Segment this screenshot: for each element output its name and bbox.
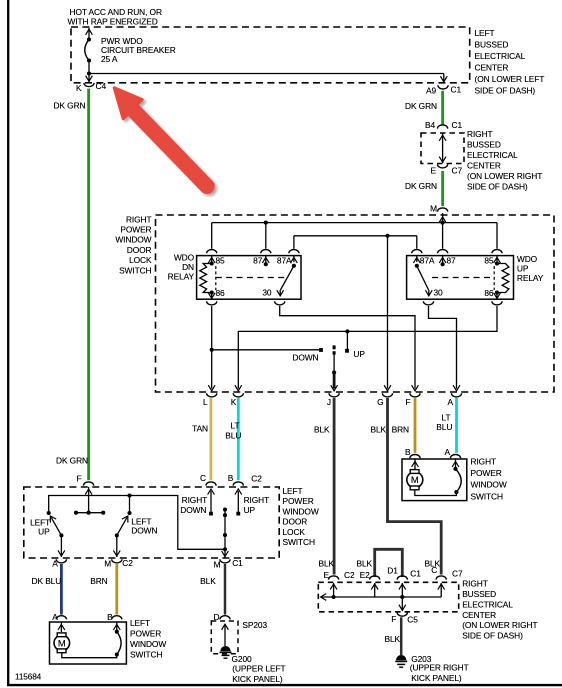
svg-text:J: J [327,397,331,407]
svg-text:BRN: BRN [90,576,107,586]
svg-text:87: 87 [447,255,457,265]
svg-text:DN: DN [182,262,194,272]
svg-text:M: M [58,638,66,649]
svg-text:(ON LOWER RIGHT: (ON LOWER RIGHT [467,171,542,181]
svg-text:F: F [391,614,396,624]
svg-text:SWITCH: SWITCH [130,650,162,660]
svg-text:UP: UP [244,505,256,515]
svg-text:DOWN: DOWN [131,525,157,535]
svg-text:ELECTRICAL: ELECTRICAL [462,599,513,609]
svg-text:K: K [231,397,237,407]
svg-text:E2: E2 [360,570,370,580]
svg-text:DOOR: DOOR [283,517,308,527]
svg-text:BUSSED: BUSSED [467,140,501,150]
svg-text:TAN: TAN [192,423,208,433]
svg-text:POWER: POWER [471,468,502,478]
svg-text:C2: C2 [251,474,262,484]
svg-text:WDO: WDO [174,252,195,262]
svg-text:RIGHT: RIGHT [182,495,208,505]
svg-text:C2: C2 [344,570,355,580]
svg-text:115684: 115684 [15,673,42,682]
svg-text:BLU: BLU [225,430,241,440]
svg-text:WINDOW: WINDOW [130,639,166,649]
svg-text:C1: C1 [232,558,243,568]
svg-text:BRN: BRN [392,425,409,435]
svg-text:87: 87 [253,255,263,265]
svg-text:C7: C7 [452,166,463,176]
svg-text:ELECTRICAL: ELECTRICAL [467,150,518,160]
svg-text:G: G [377,397,383,407]
svg-text:DK GRN: DK GRN [405,101,437,111]
svg-text:D1: D1 [387,565,398,575]
svg-text:DK GRN: DK GRN [56,455,88,465]
svg-text:DOWN: DOWN [180,505,206,515]
svg-text:A: A [52,612,58,622]
svg-text:C4: C4 [96,81,107,91]
svg-text:BLK: BLK [356,559,372,569]
svg-text:DOOR: DOOR [127,245,152,255]
svg-text:SWITCH: SWITCH [119,265,151,275]
svg-text:E: E [324,570,330,580]
svg-text:85: 85 [484,255,494,265]
svg-text:ELECTRICAL: ELECTRICAL [475,51,526,61]
svg-text:A: A [52,558,58,568]
svg-text:LT: LT [231,420,240,430]
svg-text:86: 86 [216,288,226,298]
svg-text:SIDE OF DASH): SIDE OF DASH) [475,86,536,96]
svg-text:RIGHT: RIGHT [467,129,493,139]
svg-text:B: B [228,473,234,483]
svg-text:DK GRN: DK GRN [405,181,437,191]
svg-text:SIDE OF DASH): SIDE OF DASH) [462,631,523,641]
svg-text:POWER: POWER [130,629,161,639]
svg-text:WDO: WDO [517,254,538,264]
svg-text:UP: UP [38,527,50,537]
svg-text:BLK: BLK [370,425,386,435]
svg-text:DOWN: DOWN [292,352,318,362]
svg-text:KICK PANEL): KICK PANEL) [232,674,283,684]
svg-text:LOCK: LOCK [129,255,152,265]
svg-text:A: A [448,397,454,407]
svg-text:M: M [104,559,111,569]
svg-text:A9: A9 [426,86,436,96]
svg-text:KICK PANEL): KICK PANEL) [411,673,462,683]
svg-text:C: C [431,565,437,575]
svg-text:RELAY: RELAY [168,272,195,282]
svg-text:B: B [107,612,113,622]
svg-text:SWITCH: SWITCH [283,537,315,547]
svg-text:85: 85 [216,255,226,265]
svg-text:C5: C5 [407,614,418,624]
svg-text:CENTER: CENTER [467,161,501,171]
svg-text:CENTER: CENTER [475,63,509,73]
svg-text:BLK: BLK [318,559,334,569]
svg-text:WITH RAP ENERGIZED: WITH RAP ENERGIZED [68,16,158,26]
svg-text:(UPPER RIGHT: (UPPER RIGHT [410,662,469,672]
svg-text:C1: C1 [410,569,421,579]
svg-text:WINDOW: WINDOW [283,506,319,516]
svg-text:M: M [430,203,437,213]
svg-text:UP: UP [353,349,365,359]
svg-text:C2: C2 [122,558,133,568]
svg-text:25 A: 25 A [101,54,118,64]
svg-text:A: A [445,447,451,457]
svg-text:C1: C1 [451,85,462,95]
svg-text:RIGHT: RIGHT [126,214,152,224]
svg-text:B: B [405,447,411,457]
svg-text:LEFT: LEFT [283,486,303,496]
svg-text:(ON LOWER LEFT: (ON LOWER LEFT [475,74,545,84]
svg-text:(ON LOWER RIGHT: (ON LOWER RIGHT [462,620,537,630]
svg-text:K: K [76,83,82,93]
svg-text:M: M [411,475,419,486]
svg-text:LEFT: LEFT [475,28,495,38]
svg-text:WINDOW: WINDOW [471,480,507,490]
svg-text:30: 30 [262,288,272,298]
svg-text:M: M [214,560,221,570]
svg-text:BUSSED: BUSSED [462,589,496,599]
svg-text:BLK: BLK [314,425,330,435]
svg-text:RIGHT: RIGHT [462,579,488,589]
svg-text:L: L [203,397,208,407]
svg-text:POWER: POWER [120,225,151,235]
svg-text:86: 86 [484,288,494,298]
svg-text:C1: C1 [452,120,463,130]
svg-text:CENTER: CENTER [462,610,496,620]
svg-text:DK GRN: DK GRN [54,100,86,110]
svg-text:RIGHT: RIGHT [471,457,497,467]
svg-text:F: F [405,397,410,407]
svg-text:WINDOW: WINDOW [115,235,151,245]
svg-text:DK BLU: DK BLU [32,576,62,586]
svg-text:LOCK: LOCK [283,527,306,537]
svg-text:30: 30 [434,288,444,298]
svg-text:87A: 87A [420,255,435,265]
svg-text:G200: G200 [232,654,253,664]
svg-text:(UPPER LEFT: (UPPER LEFT [232,664,285,674]
svg-text:UP: UP [517,264,529,274]
svg-text:SIDE OF DASH): SIDE OF DASH) [467,182,528,192]
svg-text:BLK: BLK [384,634,400,644]
svg-text:RELAY: RELAY [517,273,544,283]
svg-text:BLU: BLU [436,422,452,432]
svg-text:C7: C7 [452,569,463,579]
svg-text:87A: 87A [277,255,292,265]
svg-text:POWER: POWER [283,496,314,506]
svg-text:SWITCH: SWITCH [471,491,503,501]
svg-text:SP203: SP203 [242,620,267,630]
svg-text:RIGHT: RIGHT [244,495,270,505]
svg-text:E: E [431,166,437,176]
svg-text:F: F [76,473,81,483]
svg-text:C: C [200,473,206,483]
svg-text:BLK: BLK [200,576,216,586]
svg-text:LEFT: LEFT [130,618,150,628]
svg-text:BUSSED: BUSSED [475,40,509,50]
svg-text:B4: B4 [425,120,435,130]
